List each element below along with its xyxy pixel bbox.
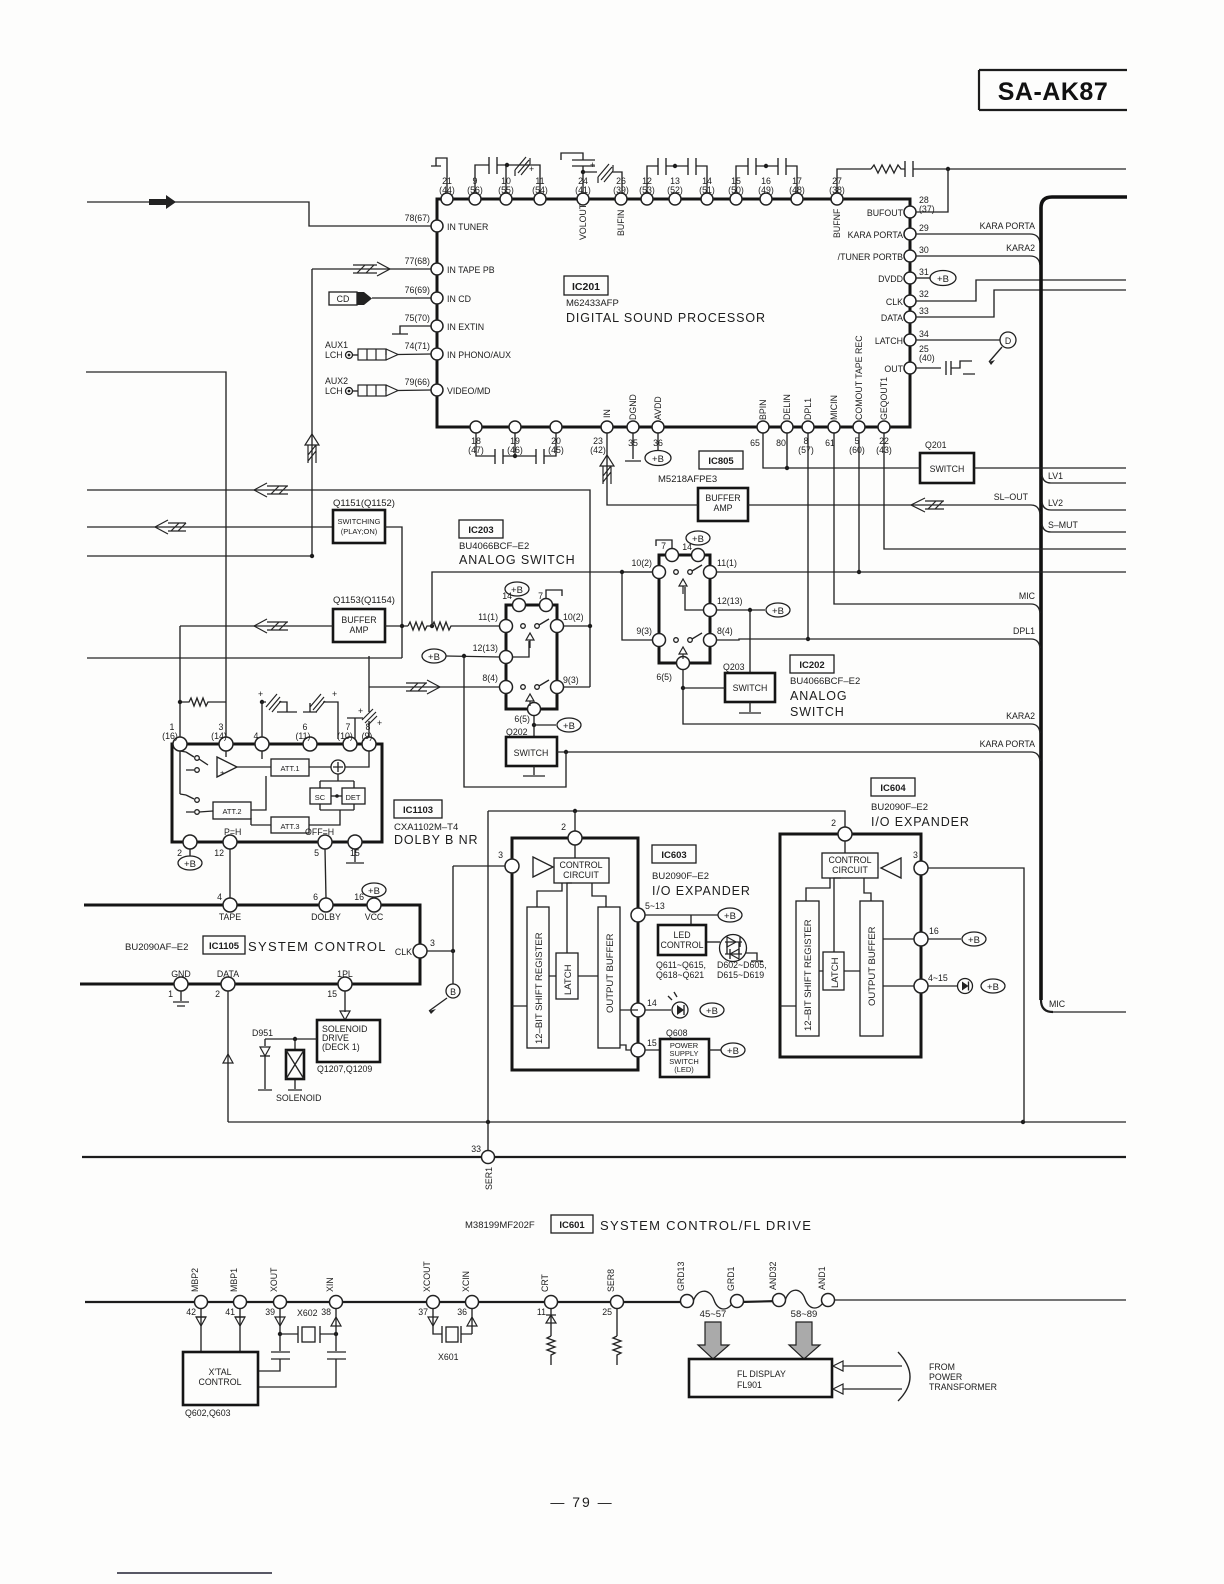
IN EXTIN stub symbol [392,326,431,334]
svg-text:SWITCH: SWITCH [514,748,549,758]
LV1 branch [1042,475,1126,483]
rotated bottom net names [602,335,889,420]
svg-text:VOLOUT: VOLOUT [578,203,588,240]
svg-text:ATT.1: ATT.1 [280,764,299,773]
svg-text:75(70): 75(70) [405,313,430,323]
SL_OUT hatched left arrow [911,498,944,512]
svg-text:33: 33 [919,306,929,316]
svg-text:8(4): 8(4) [717,626,733,636]
hatched left arrow on y=490 [254,483,288,497]
svg-text:CIRCUIT: CIRCUIT [563,870,599,880]
svg-text:VIDEO/MD: VIDEO/MD [447,386,491,396]
svg-text:AUX1: AUX1 [325,340,348,350]
system control bottom pins [174,977,352,991]
svg-text:X'TAL: X'TAL [208,1367,231,1377]
svg-text:IN CD: IN CD [447,294,471,304]
svg-text:41: 41 [225,1307,235,1317]
svg-text:SL–OUT: SL–OUT [994,492,1029,502]
left switch 12(13) internal link [512,641,529,657]
svg-text:8(4): 8(4) [482,673,498,683]
svg-text:/TUNER PORTB: /TUNER PORTB [838,252,903,262]
svg-text:+: + [258,689,263,699]
svg-text:2: 2 [561,822,566,832]
line y=658 from left edge to x=402 [87,657,402,659]
svg-text:(LED): (LED) [674,1065,694,1074]
svg-text:79(66): 79(66) [405,377,430,387]
IC1105 label row [125,936,387,954]
svg-text:X601: X601 [438,1352,459,1362]
hatched up arrow on IN wire [600,455,614,484]
svg-text:33: 33 [471,1144,481,1154]
left switch +B on pin 14 [505,582,529,596]
right switch contacts upper [674,565,702,594]
svg-text:LV2: LV2 [1048,498,1063,508]
svg-text:XCOUT: XCOUT [422,1261,432,1292]
svg-text:1: 1 [168,989,173,999]
svg-text:SWITCH: SWITCH [930,464,965,474]
svg-text:DIGITAL SOUND PROCESSOR: DIGITAL SOUND PROCESSOR [566,311,766,325]
wavy gap GRD13-GRD1 [693,1291,734,1309]
system control top thick line [84,905,420,947]
svg-text:KARA2: KARA2 [1006,243,1035,253]
hatched left arrow on y=527 [155,520,186,534]
svg-text:IC202: IC202 [799,660,824,671]
svg-text:(11): (11) [296,731,311,741]
dolby pin12 wire to TAPE [229,849,231,898]
wire KARA2 pin30 to bus [916,256,1040,265]
caps under pins 18-20 [476,433,556,464]
svg-text:IN TUNER: IN TUNER [447,222,488,232]
bottom rail pin numbers [186,1307,612,1317]
svg-text:+B: +B [724,911,736,922]
IC805 label box [699,451,743,469]
D reference circle with arrow [989,332,1016,365]
svg-text:7: 7 [661,541,666,551]
svg-text:LV1: LV1 [1048,471,1063,481]
svg-text:ANALOG: ANALOG [790,689,848,703]
svg-text:5~13: 5~13 [645,901,665,911]
Q202 out to KARA PORTA line [557,739,1040,761]
svg-text:7: 7 [538,591,543,601]
svg-text:XIN: XIN [325,1277,335,1292]
svg-text:BUFOUT: BUFOUT [867,208,904,218]
svg-text:Q202: Q202 [506,727,528,737]
svg-text:Q203: Q203 [723,662,745,672]
bottom rail pins [195,1294,835,1309]
wire GEQOUT1 pin22 down and right to edge [884,433,1126,549]
wire 8(4) line with hatched right arrow [369,680,500,694]
IC603 input triangle [533,857,553,877]
svg-text:KARA PORTA: KARA PORTA [980,739,1036,749]
right switch 12(13) internal link [685,587,704,610]
svg-text:OUTPUT BUFFER: OUTPUT BUFFER [605,933,616,1013]
svg-text:AND1: AND1 [817,1266,827,1290]
left switch pin circles [500,599,564,716]
cap network pins 9-10-11 [475,157,540,193]
IC201 label box [564,276,608,295]
IC604 pin 4~15 LED [883,973,1005,994]
wire DATA pin33 to right edge [916,290,1126,317]
AUX2 connector [325,376,431,396]
dolby top pin labels [162,722,372,741]
system control top pins [223,898,381,912]
svg-text:MIC: MIC [1049,999,1066,1009]
svg-text:MICIN: MICIN [829,395,839,420]
svg-text:KARA PORTA: KARA PORTA [980,221,1036,231]
svg-text:4~15: 4~15 [928,973,948,983]
svg-text:D951: D951 [252,1028,273,1038]
svg-text:CD: CD [337,294,350,304]
svg-text:+B: +B [772,606,784,617]
buffer amp input line from x=180 corner [180,625,333,627]
IC604 latch box [823,952,844,990]
svg-text:(16): (16) [162,731,178,741]
svg-text:AUX2: AUX2 [325,376,348,386]
svg-text:BUFFER: BUFFER [705,493,740,503]
IC1103 label box [394,800,442,818]
svg-text:GND: GND [171,969,191,979]
svg-text:3: 3 [498,850,503,860]
svg-text:BU2090F–E2: BU2090F–E2 [871,802,928,813]
svg-text:31: 31 [919,267,929,277]
svg-text:— 79 —: — 79 — [550,1494,613,1510]
IN TAPE PB line with hatched right arrow [312,262,431,276]
svg-text:LATCH: LATCH [875,336,903,346]
svg-text:DPL1: DPL1 [803,398,813,420]
line y=1122 DATA to right edge [228,1121,1126,1123]
svg-text:DOLBY: DOLBY [311,912,341,922]
IC603 control circuit box [554,845,609,883]
svg-text:+: + [377,718,382,728]
svg-text:+B: +B [987,982,999,993]
wire 12(13) to +B [716,603,790,617]
svg-text:Q608: Q608 [666,1028,688,1038]
right analog switch block [659,555,710,663]
svg-text:OUT: OUT [884,364,903,374]
SER1 vertical [487,811,489,1150]
svg-text:LCH: LCH [325,386,343,396]
svg-text:+B: +B [692,534,704,545]
svg-text:58~89: 58~89 [791,1309,818,1320]
svg-text:IN EXTIN: IN EXTIN [447,322,484,332]
svg-text:IN TAPE PB: IN TAPE PB [447,265,495,275]
dolby block IC1103 [172,744,382,842]
IC201 bottom pins [470,421,890,433]
svg-text:CXA1102M–T4: CXA1102M–T4 [394,822,458,833]
svg-text:IC203: IC203 [468,525,493,536]
buffer amp out resistors to pin 11(1) [385,622,500,630]
line y=556 ending at x=312 [87,555,312,557]
right switch +B on pin 14 [686,531,710,545]
right switch labels [631,541,742,682]
svg-text:+B: +B [937,274,949,285]
IC603 block [512,838,638,1070]
svg-text:GRD13: GRD13 [676,1262,686,1291]
IC603 output buffer box [598,907,620,1048]
svg-text:29: 29 [919,223,929,233]
svg-text:16: 16 [354,892,364,902]
svg-text:+: + [358,706,363,716]
CLK pin [395,938,435,958]
svg-text:+B: +B [428,652,440,663]
line y=572 from x=432 to right [432,572,653,626]
dolby ATT.2 box [180,776,266,819]
svg-text:SER1: SER1 [484,1167,494,1190]
svg-text:IC604: IC604 [880,783,906,794]
XTAL CONTROL box [183,1352,258,1418]
svg-text:MIC: MIC [1019,591,1036,601]
pin38 wire down with cap [258,1308,346,1387]
svg-text:(PLAY;ON): (PLAY;ON) [341,527,378,536]
svg-text:D615~D619: D615~D619 [717,970,764,980]
svg-text:11: 11 [537,1307,546,1317]
rotated net names VOLOUT BUFIN BUFNF [578,203,842,240]
svg-text:IC601: IC601 [559,1220,585,1231]
cap network pin 24-26 [561,153,622,194]
svg-text:CONTROL: CONTROL [198,1377,241,1387]
IC201 right pin labels [838,195,935,374]
wire 12(13) to +B with junction [422,649,500,663]
right switch pin circles [653,549,717,670]
wire 10(2) left with drop x=622 [622,572,653,640]
svg-text:2: 2 [215,989,220,999]
svg-text:+B: +B [511,585,523,596]
X601 crystal [438,1326,472,1362]
wire 9(3) to x=590 [563,686,590,688]
svg-text:+: + [590,160,595,170]
IC604 pin 16 [883,926,986,946]
svg-text:POWER: POWER [929,1372,962,1382]
svg-text:LED: LED [673,930,690,940]
svg-text:12(13): 12(13) [473,643,498,653]
MIC bottom line to edge [1053,1011,1126,1013]
SER1 pin [471,1144,494,1190]
svg-text:AVDD: AVDD [653,396,663,420]
antenna symbol at pin 21 [431,158,447,193]
IC201 left pin labels [405,213,512,396]
FL DISPLAY box [689,1359,832,1397]
svg-text:78(67): 78(67) [405,213,430,223]
IC203 label box [459,520,503,538]
svg-text:2: 2 [177,848,182,858]
IC603 label box [652,845,696,863]
LED diode pair D602 [707,935,767,981]
vertical x=453 from IC603 pin3 down to B circle [452,866,454,984]
cap network pins 12-13-14 [647,158,707,193]
svg-text:65: 65 [750,438,760,448]
dolby ATT.3 box [251,810,340,833]
svg-text:M62433AFP: M62433AFP [566,298,619,309]
bus bottom curve to MIC line [1041,1000,1053,1012]
left switch labels [473,591,584,724]
svg-text:FROM: FROM [929,1362,955,1372]
IC603 shift register box [527,907,549,1048]
GND ground symbol [173,991,189,1006]
svg-text:CLK: CLK [395,947,412,957]
fat arrow 58~89 [789,1322,820,1359]
pin 27 RC to right edge [837,161,1126,193]
dolby bottom pins [183,835,362,849]
IC603 pin3 left [453,850,519,873]
DGND ground [625,433,641,461]
wire 8(4) right DPL1 line to bus [716,626,1040,648]
svg-text:IC805: IC805 [708,456,734,467]
dolby top pins [173,737,376,751]
ground-plus symbol above dolby pin 8(9) [347,706,363,744]
pin25 SER8 wire resistor [613,1308,621,1365]
Q202 switch box [506,727,557,766]
svg-text:10(2): 10(2) [631,558,652,568]
hatched up arrow on that vertical [305,434,319,463]
FROM POWER TRANSFORMER arrows [833,1352,997,1401]
svg-text:11(1): 11(1) [478,612,498,622]
line y=811 net pin2 IC603/IC604 [488,811,845,827]
svg-text:VCC: VCC [365,912,384,922]
loop wire x=464 to x=566 [464,656,566,787]
bottom left rule [117,1572,272,1574]
IC805 buffer amp box [698,488,748,521]
svg-text:ATT.2: ATT.2 [222,807,241,816]
IC603 pin 5~13 [631,901,742,925]
svg-text:4: 4 [217,892,222,902]
wire 12(13) node down to Q203 [749,610,751,673]
svg-text:(39): (39) [613,185,629,195]
svg-text:34: 34 [919,329,929,339]
svg-text:BUFIN: BUFIN [616,210,626,236]
cap network pins 15-16-17 [736,158,797,193]
wire COMOUT pin5(60) down [858,433,860,572]
IC201 left pins [431,220,443,396]
bottom rail rotated labels [190,1261,827,1292]
svg-text:BU4066BCF–E2: BU4066BCF–E2 [459,541,529,552]
svg-text:1PL: 1PL [337,969,353,979]
svg-text:M38199MF202F: M38199MF202F [465,1220,535,1231]
svg-text:6: 6 [313,892,318,902]
svg-text:FL DISPLAY: FL DISPLAY [737,1369,786,1379]
Q201 switch box [920,440,974,483]
system control top pin labels [217,892,384,922]
pin42 wire to xtal control [196,1308,206,1352]
wire SWITCHING out down to y=658 [385,527,402,658]
svg-text:DET: DET [346,793,361,802]
dolby pin2 +B [178,849,202,870]
svg-text:TAPE: TAPE [219,912,241,922]
electrolytic cap below 8(4) corner [362,656,382,739]
svg-text:DELIN: DELIN [782,394,792,420]
vertical x=180 down to dolby pin1 [179,626,181,744]
OUT pin cap and stub [916,361,975,375]
BUFFER AMP box Q1153 [333,595,395,642]
svg-text:DATA: DATA [217,969,239,979]
svg-text:LATCH: LATCH [830,957,841,988]
svg-text:SWITCH: SWITCH [790,705,845,719]
svg-text:IC1103: IC1103 [403,805,433,816]
svg-text:BU2090F–E2: BU2090F–E2 [652,871,709,882]
svg-text:(60): (60) [849,445,865,455]
X602 crystal [280,1308,338,1343]
svg-text:SA-AK87: SA-AK87 [998,78,1108,106]
svg-text:SWITCH: SWITCH [733,683,768,693]
svg-text:39: 39 [265,1307,275,1317]
IC604 pin3 right [913,850,1024,1122]
svg-text:IN: IN [602,409,612,418]
svg-text:MBP1: MBP1 [229,1268,239,1292]
svg-text:OUTPUT BUFFER: OUTPUT BUFFER [867,926,878,1006]
svg-text:12: 12 [214,848,224,858]
svg-text:+B: +B [652,454,664,465]
svg-text:S–MUT: S–MUT [1048,520,1078,530]
svg-text:IN PHONO/AUX: IN PHONO/AUX [447,350,511,360]
svg-text:(42): (42) [590,445,606,455]
svg-text:CONTROL: CONTROL [660,940,703,950]
svg-text:+B: +B [968,935,980,946]
right bus vertical thick [1041,197,1127,1000]
IC604 input triangle [881,858,901,878]
svg-text:(49): (49) [758,185,774,195]
svg-text:P=H: P=H [224,827,241,837]
svg-text:SOLENOID: SOLENOID [276,1093,321,1103]
svg-text:FL901: FL901 [737,1380,762,1390]
svg-text:DVDD: DVDD [878,274,903,284]
IC603 internal wires [512,883,606,1006]
S-MUT branch [1042,524,1126,532]
svg-text:KARA2: KARA2 [1006,711,1035,721]
svg-text:3: 3 [430,938,435,948]
AVDD +B [645,433,671,466]
svg-text:Q611~Q615,: Q611~Q615, [656,960,706,970]
svg-text:DOLBY B NR: DOLBY B NR [394,833,479,847]
IC604 pin2 top [831,818,852,841]
wire MICIN pin61 down to MIC line [834,433,1040,613]
svg-text:45~57: 45~57 [700,1309,727,1320]
IC201 bottom pin labels [468,436,892,455]
svg-text:+B: +B [368,886,380,897]
svg-text:Q201: Q201 [925,440,947,450]
IC201 right pins [904,206,916,374]
svg-text:BUFFER: BUFFER [341,615,376,625]
svg-text:CRT: CRT [540,1273,550,1292]
IC603 pin 14 LED [620,992,724,1018]
D951 diode [252,1028,273,1090]
dolby pin5 wire to DOLBY [325,849,326,898]
svg-text:80: 80 [776,438,786,448]
svg-text:14: 14 [647,998,657,1008]
wire 11(1) right to bus crossing [716,571,1126,573]
IC604 internal wires [780,878,871,1006]
svg-text:CIRCUIT: CIRCUIT [832,865,868,875]
svg-text:SC: SC [315,793,326,802]
left switch contacts upper [521,619,549,648]
wire IN pin23 down to buffer amp [607,433,698,505]
svg-text:ATT.3: ATT.3 [280,822,299,831]
svg-text:6(5): 6(5) [656,672,672,682]
dolby sum circle [331,751,369,774]
IC601 title row [465,1215,812,1233]
svg-text:CONTROL: CONTROL [559,860,602,870]
pin37 XCOUT wire [428,1308,442,1334]
svg-text:DPL1: DPL1 [1013,626,1035,636]
wire BPIN DELIN to Q201 [763,433,920,468]
svg-text:DATA: DATA [881,313,903,323]
pin41 wire to xtal control [235,1308,245,1352]
svg-text:76(69): 76(69) [405,285,430,295]
svg-text:D602~D605,: D602~D605, [717,960,767,970]
svg-text:LCH: LCH [325,350,343,360]
svg-text:5: 5 [314,848,319,858]
IC201 top pin number labels [439,176,845,195]
svg-text:2: 2 [831,818,836,828]
svg-text:AMP: AMP [713,503,732,513]
